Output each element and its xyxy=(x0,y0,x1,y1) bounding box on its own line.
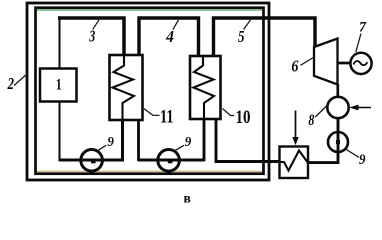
reactor 1 xyxy=(40,69,77,102)
label 4 with leader xyxy=(165,20,178,46)
heat exchanger 11 coil xyxy=(113,56,135,120)
generator 7 xyxy=(350,53,371,74)
label 6 with leader xyxy=(291,56,313,75)
pump 9 of loop 4 xyxy=(158,150,180,172)
svg-text:2: 2 xyxy=(7,74,15,93)
steam generator 10 vessel xyxy=(190,56,221,119)
label 9 (loop 3 pump) with leader xyxy=(98,135,114,151)
wire: mixer 8 down through feed pump to feedwater line xyxy=(309,118,339,162)
label 11 with leader xyxy=(144,107,174,128)
feed pump 9 xyxy=(328,132,348,152)
svg-text:4: 4 xyxy=(165,27,174,46)
svg-text:3: 3 xyxy=(88,26,95,45)
svg-text:9: 9 xyxy=(359,152,366,168)
pump 9 of loop 3 xyxy=(81,150,103,172)
label 8 with leader xyxy=(308,105,328,129)
svg-text:6: 6 xyxy=(291,56,298,75)
inner containment frame xyxy=(36,8,264,174)
svg-text:8: 8 xyxy=(308,112,314,129)
label 7 with leader xyxy=(356,20,367,52)
wire: HX11 coil outlet downcomer xyxy=(121,119,124,161)
svg-text:10: 10 xyxy=(236,107,251,128)
feedwater heater coil xyxy=(280,151,308,171)
label 9 (feed pump) with leader xyxy=(346,149,366,168)
turbine 6 xyxy=(314,39,338,85)
label 2 with leader xyxy=(7,74,28,94)
wire: loop 4 cold leg through pump xyxy=(139,159,206,162)
feedwater heater box xyxy=(280,147,309,179)
label 3 with leader xyxy=(88,20,99,46)
heat exchanger 11 vessel xyxy=(110,55,143,120)
label 5 with leader xyxy=(238,20,251,46)
wire: HX11 vessel bottom return xyxy=(137,119,140,161)
svg-text:7: 7 xyxy=(359,20,366,36)
wire: reactor 1 return line xyxy=(59,102,61,162)
makeup water arrow into 8 xyxy=(349,105,371,111)
steam generator 10 coil xyxy=(194,57,215,119)
svg-text:11: 11 xyxy=(160,107,174,128)
svg-text:в: в xyxy=(184,190,191,205)
wire: loop 5 steam line (HX10 vessel top to turbine inlet) xyxy=(214,18,316,57)
label 9 (loop 4 pump) with leader xyxy=(176,135,192,150)
svg-text:1: 1 xyxy=(56,77,62,94)
svg-text:9: 9 xyxy=(185,135,192,150)
outer containment frame 2 xyxy=(27,3,269,180)
svg-text:9: 9 xyxy=(107,135,114,150)
wire: loop 3 cold leg through pump xyxy=(59,159,125,162)
label 10 with leader xyxy=(223,107,251,128)
heat input arrow into feedwater heater xyxy=(292,111,298,146)
wire: loop 4 hot leg (HX11 vessel top to HX10 coil inlet) xyxy=(139,18,199,57)
svg-text:5: 5 xyxy=(238,27,245,46)
mixer/condenser 8 xyxy=(327,97,348,118)
shaft wire turbine to generator xyxy=(338,62,351,65)
wire: loop 3 hot leg (top header to HX11 coil inlet) xyxy=(58,18,124,56)
wire: turbine exhaust down to mixer 8 xyxy=(336,84,339,97)
wire: reactor 1 outlet riser xyxy=(59,17,61,69)
wire: feedwater return line to SG 10 xyxy=(216,119,280,162)
wire: HX10 coil outlet downcomer xyxy=(203,118,206,161)
